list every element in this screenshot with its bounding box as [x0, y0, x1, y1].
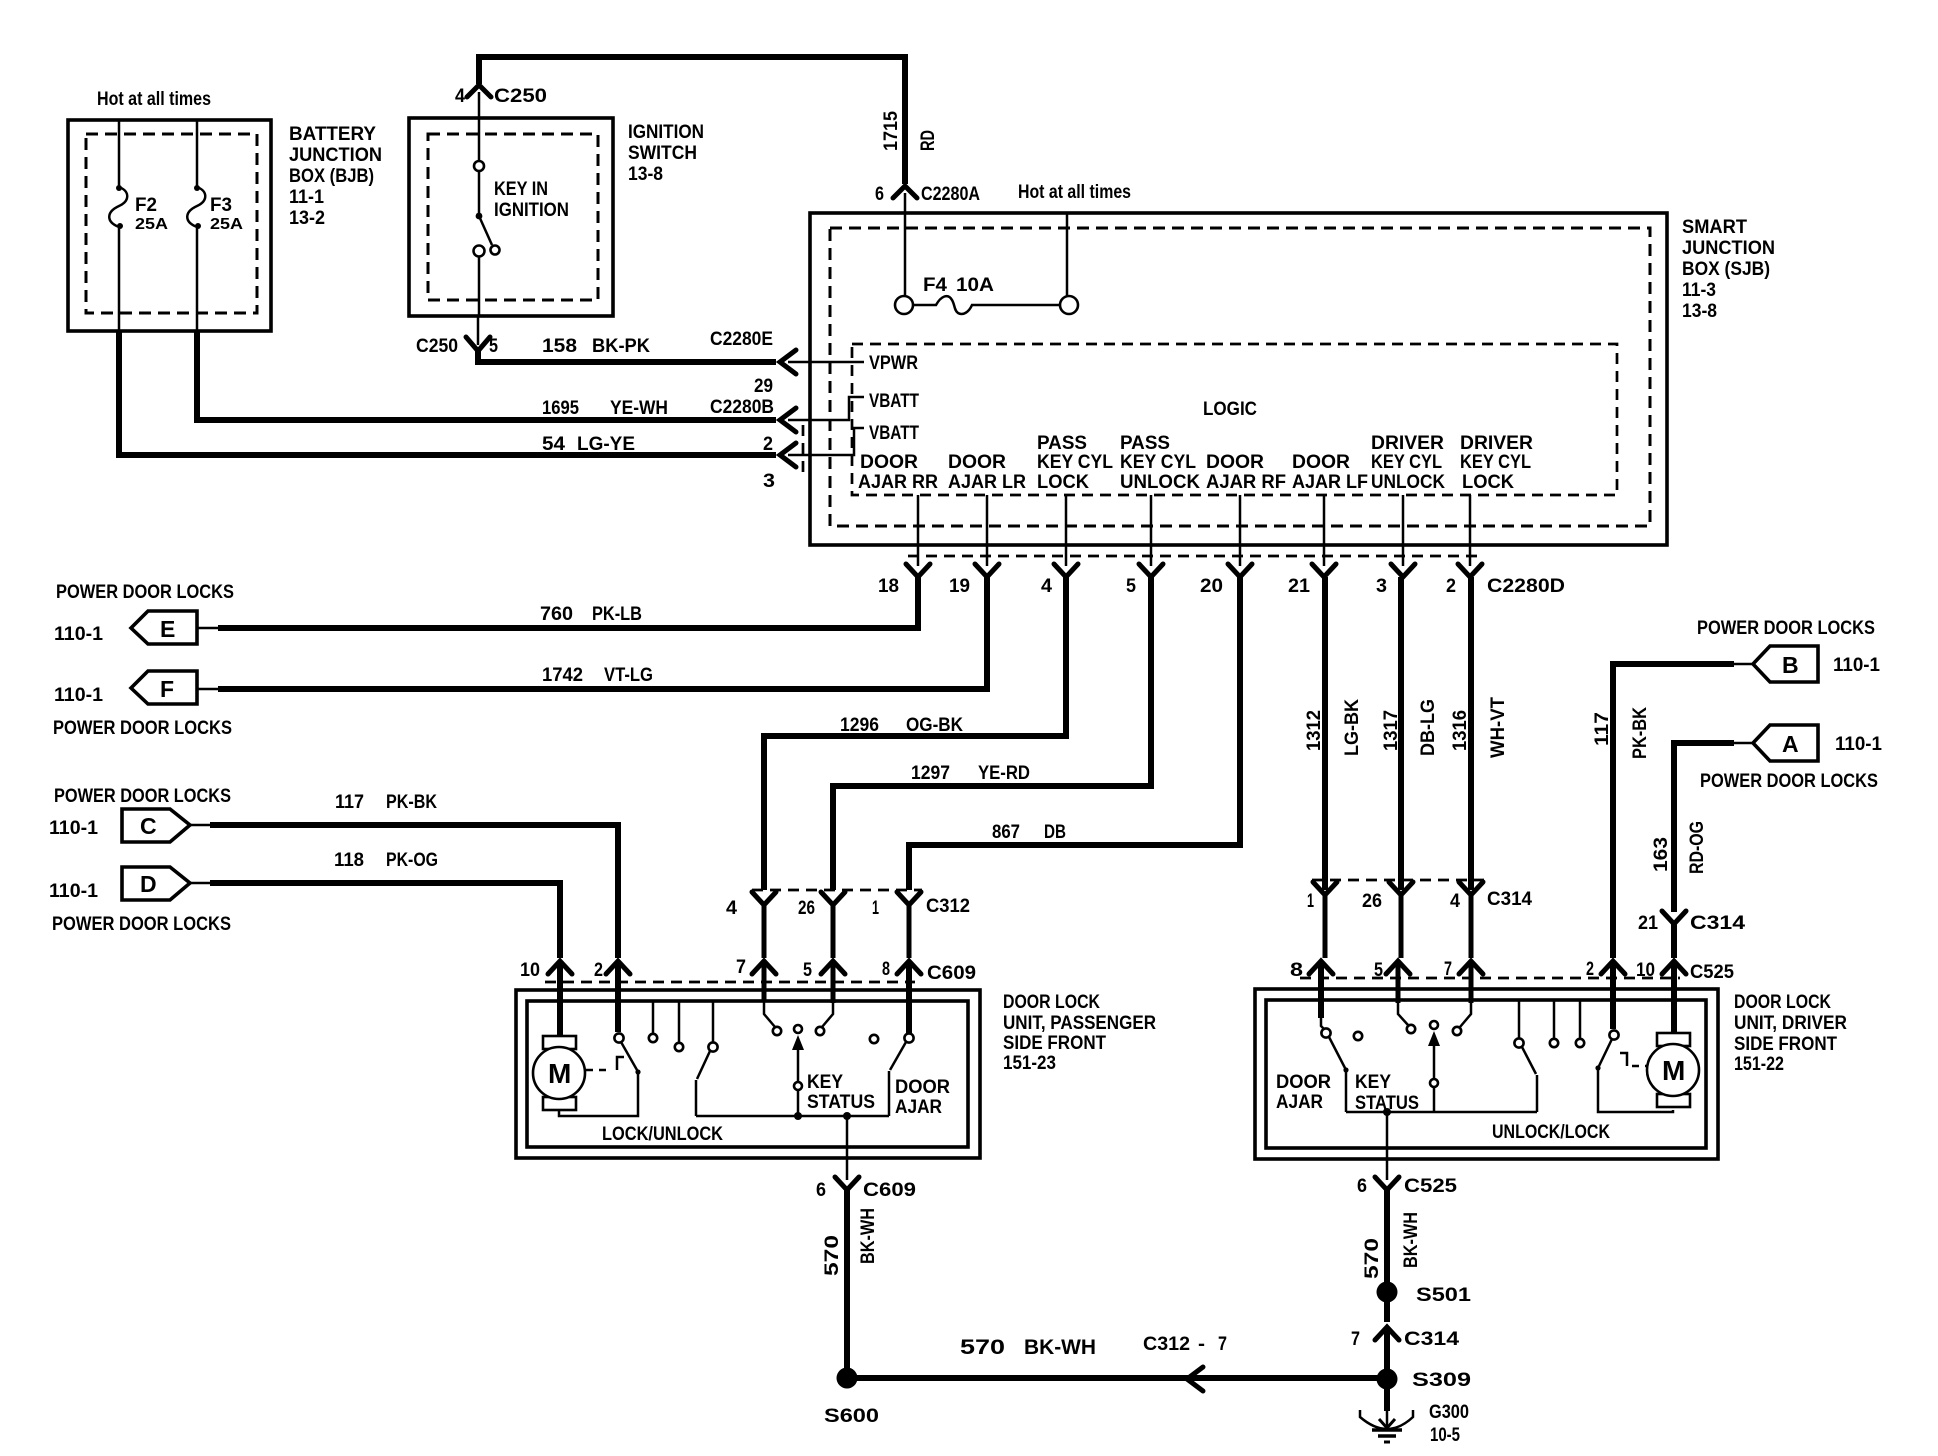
- svg-text:20: 20: [1200, 576, 1223, 597]
- svg-text:WH-VT: WH-VT: [1488, 697, 1509, 758]
- svg-text:LOCK: LOCK: [1462, 472, 1514, 493]
- svg-text:118: 118: [334, 850, 364, 871]
- svg-text:4: 4: [455, 86, 465, 107]
- svg-text:10-5: 10-5: [1430, 1425, 1460, 1446]
- lock/unlock switch (passenger pin 2): [559, 961, 641, 1116]
- wire 1742 VT-LG (pin 19 to connector F): [218, 577, 987, 689]
- LOGIC pin name: PASS KEY CYL UNLOCK: [1120, 433, 1200, 493]
- connector C2280D (SJB outputs): [878, 495, 1565, 597]
- svg-text:25A: 25A: [135, 216, 168, 233]
- svg-text:C2280A: C2280A: [921, 184, 980, 205]
- LOGIC pin name: DRIVER KEY CYL UNLOCK: [1371, 433, 1445, 493]
- connector C312: [726, 890, 970, 958]
- key-in-ignition switch: [474, 118, 500, 316]
- svg-text:VBATT: VBATT: [869, 391, 919, 412]
- svg-text:C250: C250: [416, 336, 458, 357]
- svg-text:2: 2: [1446, 576, 1456, 597]
- svg-text:DOOR: DOOR: [1292, 452, 1350, 473]
- svg-text:163: 163: [1651, 837, 1672, 872]
- svg-text:AJAR RF: AJAR RF: [1206, 472, 1286, 493]
- svg-text:19: 19: [949, 576, 970, 597]
- connector C314 (driver wires): [1307, 880, 1532, 958]
- LOGIC pin name: DOOR AJAR LF: [1292, 452, 1368, 493]
- svg-text:S501: S501: [1416, 1285, 1472, 1306]
- svg-text:IGNITION: IGNITION: [494, 200, 569, 221]
- svg-text:E: E: [160, 616, 175, 642]
- svg-text:VPWR: VPWR: [869, 353, 918, 374]
- svg-text:BK-WH: BK-WH: [1024, 1336, 1096, 1359]
- svg-text:Hot at all times: Hot at all times: [1018, 182, 1131, 203]
- door lock unit driver side front box: [1255, 989, 1847, 1159]
- svg-text:D: D: [140, 871, 157, 897]
- unlock/lock switch blade (driver): [1514, 1000, 1537, 1112]
- svg-text:10: 10: [1636, 960, 1655, 981]
- wire 1296 OG-BK (pin 4 to C312-4): [764, 577, 1066, 890]
- svg-text:110-1: 110-1: [1833, 655, 1880, 676]
- svg-text:AJAR: AJAR: [1276, 1092, 1323, 1113]
- svg-text:1296: 1296: [840, 715, 879, 736]
- connector F: [53, 671, 232, 739]
- svg-text:UNIT, DRIVER: UNIT, DRIVER: [1734, 1013, 1847, 1034]
- svg-text:DRIVER: DRIVER: [1371, 433, 1444, 454]
- connector C609 (top row): [520, 957, 976, 984]
- svg-text:POWER DOOR LOCKS: POWER DOOR LOCKS: [54, 786, 231, 807]
- svg-text:26: 26: [798, 898, 815, 919]
- svg-text:POWER DOOR LOCKS: POWER DOOR LOCKS: [53, 718, 232, 739]
- svg-text:C250: C250: [494, 86, 547, 107]
- mechanical link (driver): [1620, 1053, 1650, 1066]
- node: Hot at all times (left): [97, 89, 211, 110]
- fuse F4 10A: [895, 275, 1078, 314]
- svg-text:1742: 1742: [542, 665, 583, 686]
- svg-text:DOOR LOCK: DOOR LOCK: [1003, 992, 1100, 1013]
- wire 118 PK-OG (D to C609-10): [210, 850, 560, 958]
- wire 163 RD-OG (A to C525-10): [1651, 743, 1734, 912]
- motor M (driver): [1647, 961, 1699, 1107]
- svg-text:UNLOCK: UNLOCK: [1120, 472, 1200, 493]
- svg-text:JUNCTION: JUNCTION: [1682, 238, 1775, 259]
- wire 570 BK-WH (to ground): [847, 1336, 1386, 1378]
- connector A: [1700, 725, 1882, 792]
- svg-text:6: 6: [875, 184, 884, 205]
- svg-text:M: M: [1662, 1055, 1685, 1086]
- door ajar switch (passenger pin 8): [870, 961, 950, 1118]
- svg-text:7: 7: [1444, 959, 1452, 980]
- svg-text:13-2: 13-2: [289, 208, 325, 229]
- svg-text:C: C: [140, 813, 157, 839]
- svg-text:8: 8: [882, 959, 890, 980]
- wire 760 PK-LB (pin 18 to connector E): [218, 577, 918, 628]
- svg-text:1715: 1715: [881, 111, 902, 151]
- connector C525 (top row): [1290, 959, 1734, 983]
- svg-text:F2: F2: [135, 195, 157, 216]
- LOGIC pin name: DOOR AJAR RF: [1206, 452, 1286, 493]
- svg-text:PASS: PASS: [1120, 433, 1170, 454]
- svg-text:UNLOCK/LOCK: UNLOCK/LOCK: [1492, 1122, 1610, 1143]
- svg-text:POWER DOOR LOCKS: POWER DOOR LOCKS: [56, 582, 234, 603]
- unused contacts (passenger): [649, 1002, 683, 1051]
- svg-text:PK-BK: PK-BK: [1630, 707, 1651, 759]
- svg-text:BK-PK: BK-PK: [592, 336, 650, 357]
- wire 570 BK-WH (passenger): [822, 1190, 879, 1372]
- connector C525 pin 6: [1357, 1176, 1458, 1197]
- svg-text:LOCK: LOCK: [1037, 472, 1089, 493]
- svg-text:570: 570: [822, 1235, 843, 1276]
- door ajar switch (driver pin 8): [1276, 961, 1362, 1113]
- svg-text:YE-RD: YE-RD: [978, 763, 1030, 784]
- motor M (passenger): [533, 961, 585, 1110]
- svg-text:SIDE FRONT: SIDE FRONT: [1003, 1033, 1106, 1054]
- svg-text:KEY: KEY: [1355, 1072, 1391, 1093]
- svg-text:G300: G300: [1429, 1402, 1469, 1423]
- svg-text:867: 867: [992, 822, 1020, 843]
- svg-text:2: 2: [594, 960, 603, 981]
- svg-text:BATTERY: BATTERY: [289, 124, 376, 145]
- svg-text:C2280B: C2280B: [710, 397, 774, 418]
- connector C314 pin 7: [1351, 1300, 1460, 1370]
- svg-text:5: 5: [1374, 960, 1383, 981]
- svg-text:AJAR: AJAR: [895, 1097, 942, 1118]
- svg-text:AJAR LF: AJAR LF: [1292, 472, 1368, 493]
- svg-text:C525: C525: [1404, 1176, 1458, 1197]
- connector C312 pin 7 (inline): [1143, 1334, 1227, 1391]
- svg-text:S309: S309: [1412, 1370, 1471, 1391]
- svg-text:10A: 10A: [956, 275, 994, 296]
- svg-text:5: 5: [1126, 576, 1136, 597]
- svg-text:C609: C609: [927, 963, 976, 984]
- svg-text:BK-WH: BK-WH: [858, 1208, 879, 1264]
- common rail (passenger): [696, 1112, 889, 1180]
- connector C2280B pin 2 (VBATT): [710, 397, 864, 455]
- mechanical link (passenger): [586, 1057, 624, 1070]
- svg-text:110-1: 110-1: [49, 818, 98, 839]
- svg-text:C314: C314: [1487, 889, 1532, 910]
- svg-text:2: 2: [763, 434, 773, 455]
- svg-text:DOOR: DOOR: [1206, 452, 1264, 473]
- svg-text:5: 5: [803, 960, 812, 981]
- svg-text:11-1: 11-1: [289, 187, 324, 208]
- svg-text:117: 117: [1592, 712, 1613, 746]
- svg-text:110-1: 110-1: [1835, 734, 1882, 755]
- ground G300: [1360, 1379, 1469, 1446]
- svg-text:1: 1: [1307, 891, 1314, 912]
- svg-text:C525: C525: [1690, 962, 1734, 983]
- svg-text:1297: 1297: [911, 763, 950, 784]
- connector C2280B pin 3 (VBATT): [763, 425, 864, 492]
- svg-text:VT-LG: VT-LG: [604, 665, 653, 686]
- svg-text:570: 570: [960, 1336, 1005, 1359]
- LOGIC pin name: PASS KEY CYL LOCK: [1037, 433, 1113, 493]
- svg-text:C312: C312: [926, 896, 970, 917]
- svg-text:C2280E: C2280E: [710, 329, 773, 350]
- connector B: [1697, 618, 1880, 682]
- svg-text:S600: S600: [824, 1406, 879, 1427]
- fuse F3 25A: [187, 120, 243, 331]
- svg-text:F4: F4: [923, 275, 947, 296]
- svg-text:7: 7: [1351, 1329, 1360, 1350]
- node: Hot at all times (SJB): [1018, 182, 1131, 296]
- svg-text:DOOR LOCK: DOOR LOCK: [1734, 992, 1831, 1013]
- svg-text:DRIVER: DRIVER: [1460, 433, 1533, 454]
- ignition switch box: [409, 118, 704, 316]
- connector C2280E pin 29 (VPWR): [710, 329, 864, 397]
- svg-text:18: 18: [878, 576, 899, 597]
- wire 1317 DB-LG (pin 3 down): [1381, 577, 1439, 890]
- svg-text:-: -: [1198, 1334, 1205, 1355]
- svg-text:POWER DOOR LOCKS: POWER DOOR LOCKS: [52, 914, 231, 935]
- svg-text:13-8: 13-8: [1682, 301, 1717, 322]
- pass key cyl switch blade (passenger): [696, 1002, 718, 1116]
- svg-text:UNIT, PASSENGER: UNIT, PASSENGER: [1003, 1013, 1156, 1034]
- wire 1316 WH-VT (pin 2 down): [1450, 577, 1509, 890]
- key status movable contact (passenger): [792, 1025, 875, 1116]
- svg-text:DB-LG: DB-LG: [1418, 699, 1439, 756]
- key status contacts (passenger pins 7,5): [764, 961, 833, 1035]
- wire: hot feed rail to SJB: [479, 57, 905, 184]
- svg-text:760: 760: [540, 604, 573, 625]
- svg-text:158: 158: [542, 336, 577, 357]
- svg-text:4: 4: [726, 898, 737, 919]
- svg-text:25A: 25A: [210, 216, 243, 233]
- svg-text:PK-LB: PK-LB: [592, 604, 642, 625]
- svg-text:21: 21: [1638, 913, 1658, 934]
- svg-text:1317: 1317: [1381, 710, 1402, 751]
- svg-text:1: 1: [872, 898, 879, 919]
- svg-text:UNLOCK: UNLOCK: [1371, 472, 1445, 493]
- svg-text:3: 3: [763, 471, 775, 492]
- svg-text:F3: F3: [210, 195, 232, 216]
- svg-text:KEY: KEY: [807, 1072, 843, 1093]
- svg-text:570: 570: [1362, 1238, 1383, 1279]
- svg-text:13-8: 13-8: [628, 164, 663, 185]
- wire 158 BK-PK (C250-5 to SJB): [416, 316, 776, 362]
- svg-text:DOOR: DOOR: [860, 452, 918, 473]
- fuse F2 25A: [109, 120, 168, 331]
- wire 1715 RD: [881, 111, 939, 151]
- wire 1312 LG-BK (pin 21 down): [1304, 577, 1363, 890]
- svg-text:C312: C312: [1143, 1334, 1190, 1355]
- svg-text:8: 8: [1290, 960, 1303, 981]
- splice S501: [1377, 1282, 1472, 1307]
- svg-text:LOCK/UNLOCK: LOCK/UNLOCK: [602, 1124, 723, 1145]
- svg-text:KEY CYL: KEY CYL: [1371, 452, 1442, 473]
- svg-text:C2280D: C2280D: [1487, 576, 1565, 597]
- svg-text:6: 6: [1357, 1176, 1367, 1197]
- wire 1297 YE-RD (pin 5 to C312-26): [833, 577, 1151, 890]
- LOGIC block: [852, 344, 1617, 495]
- connector C250 pin 4: [455, 85, 547, 118]
- svg-text:POWER DOOR LOCKS: POWER DOOR LOCKS: [1697, 618, 1875, 639]
- LOGIC pin name: DOOR AJAR LR: [948, 452, 1026, 493]
- wire 867 DB (pin 20 to C312-1): [909, 577, 1240, 890]
- connector D: [49, 867, 231, 935]
- svg-text:5: 5: [489, 336, 498, 357]
- svg-text:OG-BK: OG-BK: [906, 715, 963, 736]
- svg-text:10: 10: [520, 960, 540, 981]
- svg-text:BOX (BJB): BOX (BJB): [289, 166, 374, 187]
- svg-text:DOOR: DOOR: [895, 1077, 950, 1098]
- svg-text:BOX (SJB): BOX (SJB): [1682, 259, 1770, 280]
- key status movable contact (driver): [1355, 1021, 1440, 1114]
- door lock unit passenger side front box: [516, 990, 1156, 1158]
- common rail (driver): [1346, 1108, 1537, 1180]
- svg-text:29: 29: [754, 376, 773, 397]
- svg-text:KEY IN: KEY IN: [494, 179, 548, 200]
- svg-text:21: 21: [1288, 576, 1310, 597]
- wire 54 LG-YE (fuse F2 to SJB): [119, 331, 776, 455]
- wire 570 BK-WH (driver): [1362, 1190, 1422, 1284]
- svg-text:YE-WH: YE-WH: [610, 398, 668, 419]
- svg-text:2: 2: [1586, 959, 1594, 980]
- wire 117 PK-BK (B to C525-2): [1592, 664, 1734, 958]
- svg-text:VBATT: VBATT: [869, 423, 919, 444]
- svg-text:B: B: [1782, 652, 1799, 678]
- svg-text:BK-WH: BK-WH: [1401, 1212, 1422, 1268]
- svg-text:110-1: 110-1: [54, 624, 103, 645]
- svg-text:DB: DB: [1044, 822, 1066, 843]
- svg-text:SIDE FRONT: SIDE FRONT: [1734, 1034, 1837, 1055]
- svg-text:151-23: 151-23: [1003, 1053, 1056, 1074]
- svg-text:KEY CYL: KEY CYL: [1460, 452, 1531, 473]
- wire 117 PK-BK (C to C609-2): [210, 792, 618, 958]
- svg-text:151-22: 151-22: [1734, 1054, 1784, 1075]
- svg-text:C609: C609: [863, 1180, 916, 1201]
- svg-text:RD-OG: RD-OG: [1687, 821, 1708, 874]
- svg-text:POWER DOOR LOCKS: POWER DOOR LOCKS: [1700, 771, 1878, 792]
- svg-text:SWITCH: SWITCH: [628, 143, 697, 164]
- svg-text:26: 26: [1362, 891, 1382, 912]
- svg-text:LOGIC: LOGIC: [1203, 399, 1257, 420]
- svg-text:7: 7: [736, 957, 746, 978]
- smart junction box SJB: [810, 213, 1775, 545]
- unused contacts (driver): [1550, 1000, 1584, 1047]
- svg-text:11-3: 11-3: [1682, 280, 1716, 301]
- splice S600: [824, 1368, 879, 1428]
- svg-text:6: 6: [816, 1180, 826, 1201]
- svg-text:Hot at all times: Hot at all times: [97, 89, 211, 110]
- splice S309: [1377, 1369, 1472, 1392]
- connector C: [49, 786, 231, 842]
- svg-text:SMART: SMART: [1682, 217, 1747, 238]
- svg-text:DOOR: DOOR: [1276, 1072, 1331, 1093]
- svg-text:C314: C314: [1690, 913, 1746, 934]
- svg-text:110-1: 110-1: [49, 881, 98, 902]
- wire 1695 YE-WH (fuse F3 to SJB): [197, 331, 776, 420]
- battery junction box BJB: [68, 120, 382, 331]
- svg-text:PK-BK: PK-BK: [386, 792, 437, 813]
- svg-text:4: 4: [1450, 891, 1460, 912]
- svg-text:4: 4: [1041, 576, 1052, 597]
- motor switch (driver pin 2): [1595, 961, 1673, 1112]
- svg-text:F: F: [160, 676, 174, 702]
- svg-text:LG-BK: LG-BK: [1342, 699, 1363, 756]
- svg-text:PK-OG: PK-OG: [386, 850, 438, 871]
- svg-text:110-1: 110-1: [54, 685, 103, 706]
- svg-text:AJAR LR: AJAR LR: [948, 472, 1026, 493]
- svg-text:KEY CYL: KEY CYL: [1037, 452, 1113, 473]
- svg-text:117: 117: [335, 792, 364, 813]
- svg-text:A: A: [1782, 731, 1799, 757]
- svg-text:AJAR RR: AJAR RR: [858, 472, 938, 493]
- svg-text:1695: 1695: [542, 398, 579, 419]
- LOGIC pin name: DRIVER KEY CYL LOCK: [1460, 433, 1533, 493]
- svg-text:LG-YE: LG-YE: [577, 434, 635, 455]
- svg-text:1316: 1316: [1450, 710, 1471, 751]
- svg-text:M: M: [548, 1058, 571, 1089]
- connector C2280A pin 6: [875, 184, 980, 296]
- svg-text:7: 7: [1218, 1334, 1227, 1355]
- LOGIC pin name: DOOR AJAR RR: [858, 452, 938, 493]
- connector E: [54, 582, 234, 645]
- svg-text:PASS: PASS: [1037, 433, 1087, 454]
- svg-text:3: 3: [1376, 576, 1387, 597]
- svg-text:JUNCTION: JUNCTION: [289, 145, 382, 166]
- svg-text:1312: 1312: [1304, 710, 1325, 751]
- svg-text:C314: C314: [1404, 1329, 1460, 1350]
- connector C609 pin 6: [816, 1177, 916, 1201]
- svg-text:RD: RD: [918, 130, 939, 151]
- svg-text:IGNITION: IGNITION: [628, 122, 704, 143]
- connector C314 pin 21 (inline): [1638, 911, 1746, 958]
- svg-text:KEY CYL: KEY CYL: [1120, 452, 1196, 473]
- svg-text:DOOR: DOOR: [948, 452, 1006, 473]
- key status contacts (driver pins 5,7): [1398, 961, 1471, 1035]
- svg-text:STATUS: STATUS: [807, 1092, 875, 1113]
- svg-text:54: 54: [542, 434, 565, 455]
